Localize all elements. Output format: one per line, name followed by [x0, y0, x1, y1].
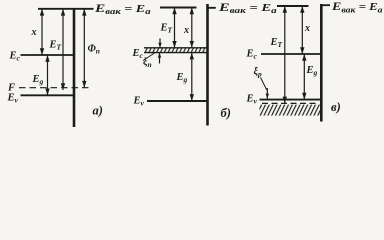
vacuum level stub right of barrier (diagram v)	[321, 4, 330, 6]
svg-text:Eg: Eg	[32, 74, 44, 86]
svg-text:Eg: Eg	[176, 72, 188, 84]
svg-text:Eвак = Ea: Eвак = Ea	[94, 2, 151, 17]
xi_p pointer arrow (diagram v)	[266, 88, 269, 99]
svg-text:Ev: Ev	[133, 96, 145, 108]
surface barrier line (diagram b)	[206, 4, 209, 126]
vacuum level line E_vak (diagram a)	[38, 8, 94, 10]
vacuum level stub right of barrier (diagram b)	[208, 7, 216, 9]
electron affinity arrow chi (diagram b)	[190, 8, 194, 48]
valence band edge line E_v (diagram v)	[260, 99, 322, 101]
svg-text:в): в)	[331, 100, 341, 114]
svg-text:Ev: Ev	[246, 94, 258, 106]
svg-text:Ev: Ev	[7, 93, 19, 105]
svg-text:Ec: Ec	[246, 49, 258, 61]
svg-text:Eвак = Ea: Eвак = Ea	[218, 2, 277, 16]
band gap arrow E_g (diagram b)	[190, 53, 194, 101]
thermionic work function arrow E_T (diagram a)	[61, 9, 65, 90]
conduction band edge line E_c (diagram v)	[261, 53, 321, 55]
vacuum level line E_vak (diagram v)	[277, 5, 309, 7]
empty valence states hatched block below F (diagram v)	[260, 105, 321, 116]
svg-text:ξp: ξp	[254, 67, 263, 79]
svg-text:ET: ET	[160, 23, 173, 35]
svg-text:Ec: Ec	[9, 51, 21, 63]
svg-text:б): б)	[221, 106, 231, 120]
leader line from xi_p label (diagram v)	[261, 78, 267, 91]
svg-text:ET: ET	[49, 40, 62, 52]
vacuum level line E_vak (diagram b)	[160, 7, 197, 9]
svg-text:x: x	[183, 25, 189, 36]
work function arrow Phi_n (diagram a)	[82, 9, 86, 88]
valence band edge line E_v (diagram a)	[21, 94, 75, 96]
band gap arrow E_g (diagram a)	[45, 55, 49, 95]
conduction band edge line E_c (diagram a)	[21, 54, 75, 56]
svg-text:x: x	[31, 27, 37, 38]
work function arrow E_T (diagram v)	[283, 6, 287, 103]
svg-text:Eg: Eg	[306, 65, 318, 77]
Fermi level dashed line F (diagram a)	[19, 87, 90, 89]
svg-text:ξn: ξn	[143, 57, 152, 69]
surface barrier line (diagram a)	[73, 9, 76, 127]
dimension arrow xi_n upper (diagram b)	[158, 39, 161, 48]
surface barrier line (diagram v)	[320, 4, 323, 122]
svg-text:Ec: Ec	[132, 48, 144, 60]
Fermi level dashed line F (diagram v)	[262, 102, 319, 104]
electron affinity arrow chi (diagram v)	[300, 6, 304, 54]
dimension arrow xi_n lower (diagram b)	[158, 53, 161, 64]
filled conduction band hatched strip E_c..F (diagram b)	[144, 48, 207, 53]
work function arrow E_T (diagram b)	[172, 8, 176, 48]
band gap arrow E_g (diagram v)	[302, 54, 306, 100]
svg-text:Eвак = Ea: Eвак = Ea	[331, 0, 383, 14]
svg-text:а): а)	[93, 104, 103, 118]
svg-text:Φn: Φn	[88, 44, 100, 56]
valence band edge line E_v (diagram b)	[147, 100, 207, 102]
svg-text:x: x	[304, 23, 310, 34]
leader line from E_c label to band (diagram b)	[143, 53, 155, 61]
svg-text:ET: ET	[270, 37, 283, 49]
electron affinity arrow chi (diagram a)	[40, 9, 44, 55]
